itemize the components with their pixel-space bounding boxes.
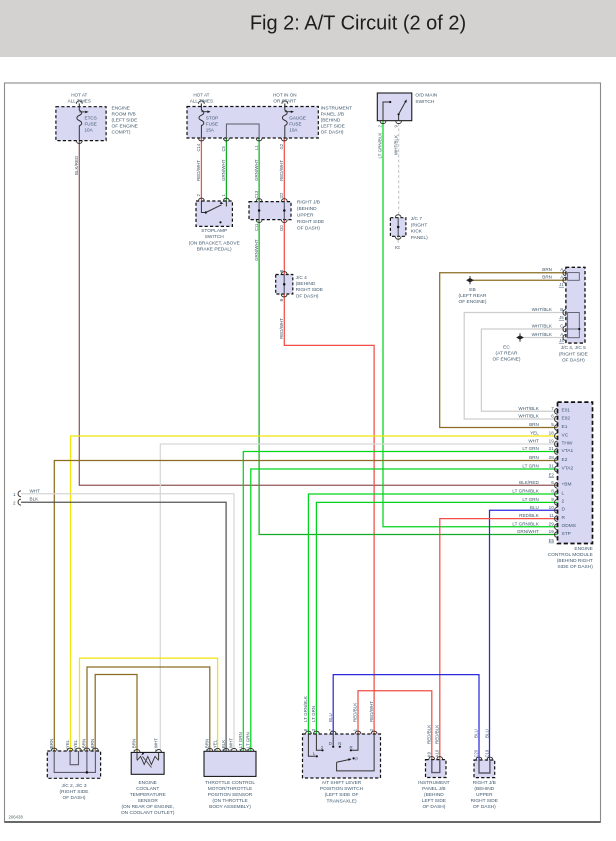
svg-text:LEFT SIDE: LEFT SIDE (422, 798, 446, 804)
svg-text:BODY ASSEMBLY): BODY ASSEMBLY) (209, 804, 251, 810)
svg-text:J5: J5 (559, 315, 564, 320)
svg-text:BRN: BRN (205, 739, 210, 749)
svg-text:WHT/BLK: WHT/BLK (518, 406, 539, 411)
svg-text:7: 7 (551, 406, 554, 411)
svg-text:E01: E01 (562, 408, 571, 414)
svg-text:BLU: BLU (328, 713, 333, 722)
svg-text:RED/BLK: RED/BLK (427, 725, 432, 744)
svg-text:LT GRN: LT GRN (522, 464, 538, 469)
svg-text:E5: E5 (549, 538, 555, 543)
svg-text:BRN: BRN (542, 275, 552, 280)
svg-text:+BM: +BM (562, 482, 572, 488)
svg-text:HOT AT: HOT AT (71, 93, 87, 98)
svg-text:L1: L1 (254, 145, 259, 150)
svg-text:6: 6 (74, 748, 78, 750)
svg-text:LT GRN/BLK: LT GRN/BLK (378, 133, 383, 159)
svg-text:C20: C20 (474, 749, 479, 757)
svg-text:SWITCH: SWITCH (205, 234, 224, 240)
svg-text:R: R (350, 745, 353, 750)
svg-text:TRANSAXLE): TRANSAXLE) (326, 798, 357, 804)
svg-text:(ON BRACKET, ABOVE: (ON BRACKET, ABOVE (189, 240, 240, 246)
svg-text:LEFT SIDE: LEFT SIDE (321, 124, 345, 130)
svg-text:VC: VC (562, 432, 569, 438)
svg-text:OF ENGINE): OF ENGINE) (493, 357, 521, 363)
svg-text:BRN: BRN (132, 739, 137, 749)
svg-text:RED/WHT: RED/WHT (369, 701, 374, 722)
svg-text:BRN: BRN (90, 739, 95, 749)
svg-text:TEMPERATURE: TEMPERATURE (130, 792, 166, 798)
svg-text:GRN/WHT: GRN/WHT (517, 529, 539, 534)
svg-text:WHT: WHT (30, 488, 41, 493)
svg-text:BLU: BLU (485, 729, 490, 738)
svg-text:BLU: BLU (530, 505, 539, 510)
svg-text:C14: C14 (196, 143, 201, 151)
svg-text:31: 31 (549, 464, 555, 469)
svg-text:A10: A10 (435, 749, 440, 757)
svg-text:BLK/RED: BLK/RED (74, 155, 79, 175)
svg-text:CONTROL MODULE: CONTROL MODULE (548, 552, 593, 558)
svg-text:(RIGHT SIDE: (RIGHT SIDE (60, 789, 89, 795)
svg-text:R: R (562, 515, 566, 521)
svg-text:VTA1: VTA1 (562, 448, 574, 454)
svg-text:BRN: BRN (49, 739, 54, 749)
svg-text:1: 1 (230, 749, 234, 751)
svg-text:15A: 15A (206, 128, 215, 133)
svg-text:ENGINE: ENGINE (112, 106, 130, 112)
svg-text:THROTTLE CONTROL: THROTTLE CONTROL (205, 780, 255, 786)
svg-text:(RIGHT SIDE: (RIGHT SIDE (559, 351, 588, 357)
svg-text:OF DASH): OF DASH) (473, 804, 496, 810)
svg-text:(BEHIND: (BEHIND (296, 281, 316, 287)
svg-text:GRN/WHT: GRN/WHT (254, 159, 259, 181)
svg-text:OF DASH): OF DASH) (63, 795, 86, 801)
svg-text:ALL TIMES: ALL TIMES (68, 98, 91, 103)
svg-text:(RIGHT: (RIGHT (411, 222, 428, 228)
svg-text:FUSE: FUSE (85, 122, 97, 127)
svg-text:LT GRN: LT GRN (522, 497, 538, 502)
svg-text:J/C 4: J/C 4 (296, 275, 308, 281)
svg-text:J/C 7: J/C 7 (411, 216, 423, 222)
svg-text:LT GRN: LT GRN (238, 732, 243, 748)
svg-text:KICK: KICK (411, 229, 423, 235)
svg-text:C13: C13 (254, 190, 259, 198)
svg-text:PANEL): PANEL) (411, 235, 428, 241)
svg-text:FUSE: FUSE (289, 122, 301, 127)
svg-text:MOTOR/THROTTLE: MOTOR/THROTTLE (208, 786, 252, 792)
svg-text:D: D (329, 741, 332, 746)
svg-text:BRN: BRN (542, 267, 552, 272)
svg-text:C19: C19 (485, 749, 490, 757)
svg-text:ROOM R/B: ROOM R/B (112, 112, 136, 118)
svg-text:EB: EB (469, 287, 475, 293)
svg-text:INSTRUMENT: INSTRUMENT (418, 780, 450, 786)
svg-text:YEL: YEL (65, 739, 70, 748)
svg-text:J/C 4, J/C 5: J/C 4, J/C 5 (561, 345, 586, 351)
svg-text:WHT: WHT (528, 439, 539, 444)
svg-text:RED/BLK: RED/BLK (353, 703, 358, 722)
svg-text:GAUGE: GAUGE (289, 116, 306, 121)
svg-text:OF ENGINE): OF ENGINE) (459, 299, 487, 305)
svg-text:P: P (355, 756, 358, 761)
svg-text:PANEL J/B: PANEL J/B (422, 786, 445, 792)
svg-text:OF DASH): OF DASH) (296, 293, 319, 299)
svg-text:206438: 206438 (9, 815, 24, 820)
svg-text:E2: E2 (562, 457, 568, 463)
svg-text:HOT IN ON: HOT IN ON (273, 93, 297, 98)
svg-text:B: B (279, 270, 284, 273)
svg-text:LT GRN/BLK: LT GRN/BLK (303, 696, 308, 722)
svg-text:LT GRN: LT GRN (246, 732, 251, 748)
svg-text:ENGINE: ENGINE (574, 546, 592, 552)
svg-text:10A: 10A (289, 128, 298, 133)
svg-text:IG: IG (395, 245, 400, 251)
svg-text:B: B (279, 299, 284, 302)
svg-text:RED/WHT: RED/WHT (196, 160, 201, 181)
svg-text:E02: E02 (562, 415, 571, 421)
svg-text:STOPLAMP: STOPLAMP (201, 228, 227, 234)
svg-text:LT GRN: LT GRN (522, 446, 538, 451)
svg-text:HOT AT: HOT AT (193, 93, 209, 98)
svg-text:19: 19 (549, 529, 555, 534)
svg-text:8: 8 (551, 489, 554, 494)
svg-text:RIGHT J/B: RIGHT J/B (297, 200, 320, 206)
svg-text:BLU: BLU (474, 729, 479, 738)
svg-text:6: 6 (551, 414, 554, 419)
svg-text:COMPT): COMPT) (112, 130, 131, 136)
svg-text:WHT/BLK: WHT/BLK (393, 135, 398, 155)
svg-text:B: B (560, 307, 563, 312)
svg-text:2: 2 (13, 501, 16, 506)
svg-text:RIGHT J/B: RIGHT J/B (473, 780, 496, 786)
svg-text:STOP: STOP (206, 116, 218, 121)
svg-text:BLK: BLK (221, 740, 226, 749)
svg-text:INSTRUMENT: INSTRUMENT (321, 106, 353, 112)
svg-text:2: 2 (562, 499, 565, 505)
svg-text:J4: J4 (559, 338, 564, 343)
svg-text:BRAKE PEDAL): BRAKE PEDAL) (197, 247, 232, 253)
svg-text:WHT/BLK: WHT/BLK (532, 307, 553, 312)
svg-text:WHT: WHT (229, 738, 234, 748)
svg-text:ON COOLANT OUTLET): ON COOLANT OUTLET) (121, 810, 175, 816)
svg-text:YEL: YEL (530, 431, 539, 436)
svg-text:(BEHIND: (BEHIND (474, 786, 494, 792)
svg-text:RIGHT SIDE: RIGHT SIDE (296, 287, 323, 293)
svg-text:C5: C5 (221, 145, 226, 151)
svg-text:6: 6 (551, 480, 554, 485)
svg-text:5: 5 (247, 749, 251, 751)
svg-text:BLK: BLK (30, 497, 40, 502)
svg-text:G2: G2 (279, 143, 284, 149)
svg-text:WHT: WHT (153, 738, 158, 748)
svg-text:29: 29 (549, 521, 555, 526)
svg-text:POSITION SWITCH: POSITION SWITCH (320, 786, 364, 792)
svg-text:BRN: BRN (529, 422, 539, 427)
svg-text:FUSE: FUSE (206, 122, 218, 127)
svg-text:19: 19 (549, 439, 555, 444)
svg-text:RED/BLK: RED/BLK (435, 725, 440, 744)
svg-text:O/D MAIN: O/D MAIN (415, 93, 437, 99)
svg-text:2: 2 (154, 749, 158, 751)
svg-text:BRN: BRN (82, 739, 87, 749)
svg-text:PANEL J/B: PANEL J/B (321, 112, 344, 118)
svg-text:2: 2 (222, 749, 226, 751)
svg-text:18: 18 (549, 431, 555, 436)
svg-text:D: D (562, 507, 566, 513)
svg-text:(BEHIND: (BEHIND (297, 206, 317, 212)
svg-text:5: 5 (551, 422, 554, 427)
svg-text:LT GRN: LT GRN (311, 706, 316, 722)
svg-text:GRN/WHT: GRN/WHT (221, 159, 226, 181)
svg-text:YEL: YEL (73, 739, 78, 748)
svg-text:A/T SHIFT LEVER: A/T SHIFT LEVER (322, 780, 362, 786)
svg-text:10A: 10A (85, 128, 94, 133)
svg-text:10: 10 (549, 505, 555, 510)
svg-text:1: 1 (133, 749, 137, 751)
svg-text:OR START: OR START (273, 98, 296, 103)
svg-text:ENGINE: ENGINE (138, 780, 156, 786)
svg-text:3: 3 (206, 749, 210, 751)
svg-text:STP: STP (562, 531, 571, 537)
svg-text:(BEHIND RIGHT: (BEHIND RIGHT (557, 558, 593, 564)
svg-text:J1: J1 (559, 282, 564, 287)
svg-text:I22: I22 (279, 192, 284, 198)
svg-text:E1: E1 (562, 424, 568, 430)
svg-text:EC: EC (503, 345, 510, 351)
svg-text:E2: E2 (549, 473, 555, 478)
svg-text:RIGHT SIDE: RIGHT SIDE (471, 798, 498, 804)
svg-text:OF DASH): OF DASH) (422, 804, 445, 810)
svg-text:N: N (338, 741, 341, 746)
svg-text:6: 6 (66, 748, 70, 750)
svg-text:VTA2: VTA2 (562, 465, 574, 471)
svg-text:OF DASH): OF DASH) (321, 130, 344, 136)
svg-text:I20: I20 (279, 225, 284, 231)
svg-text:(AT REAR: (AT REAR (496, 351, 518, 357)
svg-text:OF ENGINE: OF ENGINE (112, 124, 138, 130)
svg-text:(ON THROTTLE: (ON THROTTLE (212, 798, 247, 804)
svg-text:GRN/WHT: GRN/WHT (254, 239, 259, 261)
svg-text:WHT/BLK: WHT/BLK (532, 332, 553, 337)
svg-text:21: 21 (549, 446, 555, 451)
svg-text:ETCS: ETCS (85, 116, 97, 121)
svg-text:J/C 2, J/C 3: J/C 2, J/C 3 (61, 783, 86, 789)
svg-text:L: L (562, 490, 565, 496)
svg-text:(LEFT SIDE OF: (LEFT SIDE OF (325, 792, 359, 798)
svg-text:POSITION SENSOR: POSITION SENSOR (208, 792, 253, 798)
svg-text:OF DASH): OF DASH) (562, 358, 585, 364)
svg-text:SWITCH: SWITCH (415, 99, 434, 105)
svg-text:Fig 2: A/T Circuit (2 of 2): Fig 2: A/T Circuit (2 of 2) (250, 13, 466, 35)
svg-text:SENSOR: SENSOR (138, 798, 159, 804)
svg-text:1: 1 (13, 492, 16, 497)
svg-text:BLK/RED: BLK/RED (519, 480, 539, 485)
svg-text:RIGHT SIDE: RIGHT SIDE (297, 219, 324, 225)
svg-text:RED/WHT: RED/WHT (279, 318, 284, 339)
svg-text:RED/BLK: RED/BLK (519, 513, 540, 518)
svg-text:OF DASH): OF DASH) (297, 226, 320, 232)
svg-text:(ON REAR OF ENGINE,: (ON REAR OF ENGINE, (121, 804, 174, 810)
svg-text:ALL TIMES: ALL TIMES (190, 98, 213, 103)
svg-text:BRN: BRN (529, 455, 539, 460)
svg-text:(LEFT SIDE: (LEFT SIDE (112, 118, 138, 124)
svg-text:11: 11 (549, 513, 554, 518)
svg-text:(BEHIND: (BEHIND (424, 792, 444, 798)
svg-text:2: 2 (213, 749, 217, 751)
svg-text:SIDE OF DASH): SIDE OF DASH) (557, 564, 593, 570)
svg-text:RED/WHT: RED/WHT (279, 160, 284, 181)
svg-text:(BEHIND: (BEHIND (321, 118, 341, 124)
svg-text:LT GRN/BLK: LT GRN/BLK (512, 489, 539, 494)
svg-text:WHT/BLK: WHT/BLK (518, 414, 539, 419)
svg-text:ODMS: ODMS (562, 523, 576, 529)
svg-text:UPPER: UPPER (297, 213, 314, 219)
svg-text:9: 9 (551, 497, 554, 502)
svg-text:THW: THW (562, 440, 573, 446)
svg-text:UPPER: UPPER (476, 792, 493, 798)
svg-text:6: 6 (239, 749, 243, 751)
svg-text:K9: K9 (427, 751, 432, 757)
svg-text:COOLANT: COOLANT (136, 786, 159, 792)
svg-text:28: 28 (549, 455, 555, 460)
svg-text:C11: C11 (254, 223, 259, 231)
svg-text:YEL: YEL (212, 739, 217, 748)
svg-text:LT GRN/BLK: LT GRN/BLK (512, 521, 539, 526)
svg-text:WHT/BLK: WHT/BLK (532, 323, 553, 328)
svg-text:(LEFT REAR: (LEFT REAR (459, 293, 487, 299)
